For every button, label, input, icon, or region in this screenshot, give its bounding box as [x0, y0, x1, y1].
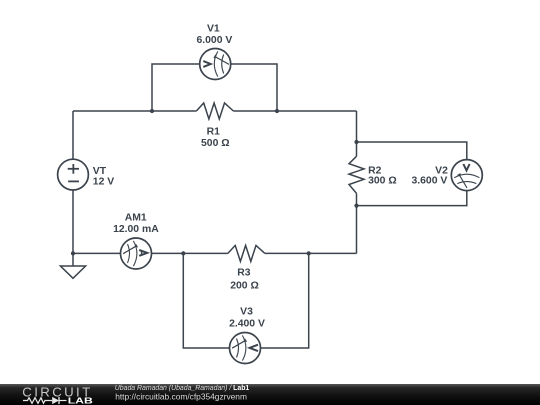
svg-text:VT: VT: [93, 166, 107, 177]
voltmeter V1: [200, 49, 231, 80]
wire bottom main AM1 to R3: [152, 252, 228, 254]
svg-text:6.000 V: 6.000 V: [196, 35, 232, 46]
wire V2 branch top: [357, 142, 467, 160]
svg-text:300 Ω: 300 Ω: [368, 176, 397, 187]
voltage source VT: [58, 159, 89, 190]
wire left branch bottom (VT to bottom wire): [72, 190, 74, 253]
wire right vertical below R2: [356, 193, 358, 253]
wire V1 branch left vertical: [152, 64, 200, 111]
node junction dot V3 left: [181, 251, 185, 255]
svg-text:500 Ω: 500 Ω: [201, 138, 230, 149]
wire V3 branch left: [183, 253, 229, 348]
ground: [60, 253, 85, 278]
wire bottom main right of R3: [265, 252, 357, 254]
wire V1 branch right vertical: [231, 64, 277, 111]
logo squiggle wire: [23, 398, 52, 404]
wire V3 branch right: [261, 253, 309, 348]
svg-text:2.400 V: 2.400 V: [229, 319, 265, 330]
voltmeter V3: [230, 333, 261, 364]
svg-text:V3: V3: [240, 306, 253, 317]
wire right vertical above R2: [356, 111, 358, 156]
node junction dot left of R1: [150, 109, 154, 113]
wire top main y=111 left of R1: [73, 110, 196, 112]
svg-text:12.00 mA: 12.00 mA: [113, 224, 159, 235]
wire V2 branch bottom: [357, 191, 467, 206]
footer bar: [0, 384, 540, 405]
node junction dot R2 top: [354, 140, 358, 144]
svg-text:LAB: LAB: [68, 396, 94, 405]
svg-text:R1: R1: [207, 127, 221, 138]
svg-text:http://circuitlab.com/cfp354gz: http://circuitlab.com/cfp354gzrvenm: [115, 391, 247, 401]
resistor R1 zigzag: [196, 103, 233, 119]
node junction dot R2 bottom: [354, 204, 358, 208]
svg-text:R3: R3: [237, 268, 251, 279]
ammeter AM1: [121, 238, 152, 269]
resistor R3 zigzag: [228, 245, 265, 261]
logo diode: [52, 397, 59, 404]
node junction dot right of R1: [275, 109, 279, 113]
svg-text:3.600 V: 3.600 V: [411, 176, 447, 187]
wire left branch top (VT to top wire): [72, 111, 74, 159]
svg-text:200 Ω: 200 Ω: [230, 280, 259, 291]
node junction dot V3 right: [307, 251, 311, 255]
resistor R2 zigzag: [349, 156, 364, 193]
wire bottom main left of AM1: [73, 252, 121, 254]
node junction dot ground/bottom-left: [71, 251, 75, 255]
svg-text:AM1: AM1: [125, 212, 147, 223]
svg-text:12 V: 12 V: [93, 177, 114, 188]
wire top main y=111 right of R1: [233, 110, 356, 112]
svg-text:V1: V1: [207, 24, 220, 35]
voltmeter V2: [451, 160, 482, 191]
